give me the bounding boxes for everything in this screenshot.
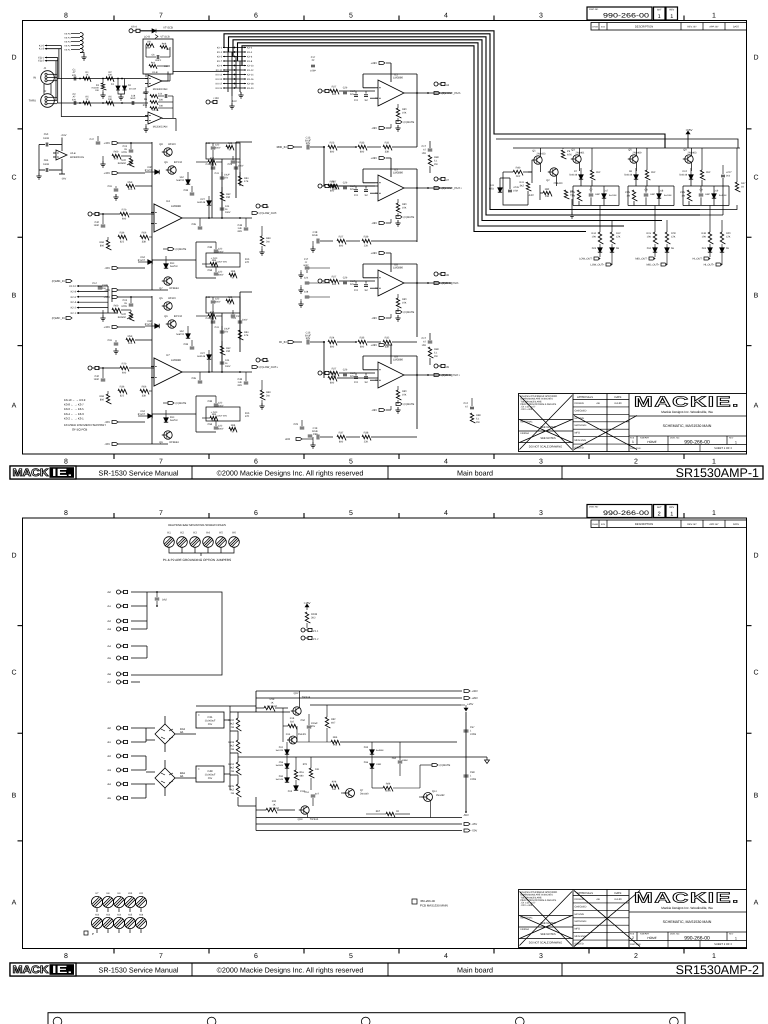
svg-text:DESCRIPTION: DESCRIPTION [635, 523, 653, 526]
resistor P2N 1W [632, 190, 637, 201]
resistor R28 800 [328, 184, 337, 189]
svg-text:R27: R27 [332, 368, 337, 371]
diode D36 100R [370, 764, 374, 768]
capacitor C41 U7 [220, 331, 225, 333]
svg-text:U7: U7 [166, 354, 170, 357]
capacitor C2 [74, 101, 76, 105]
svg-text:D52: D52 [141, 410, 146, 413]
drawing number strip 990-266-00 [587, 505, 678, 518]
svg-text:800: 800 [330, 190, 335, 193]
svg-text:2: 2 [634, 953, 638, 960]
svg-text:2: 2 [632, 936, 634, 940]
svg-text:C14: C14 [158, 93, 163, 96]
svg-text:1K: 1K [86, 98, 89, 101]
svg-text:Q6: Q6 [164, 161, 168, 164]
capacitor C44 U7 [220, 362, 225, 364]
svg-text:R66: R66 [228, 142, 233, 145]
svg-text:100V: 100V [242, 319, 248, 322]
svg-text:3: 3 [539, 953, 543, 960]
capacitor C31 U7 [114, 343, 119, 345]
svg-text:1W: 1W [230, 792, 234, 795]
svg-text:12K: 12K [616, 235, 621, 238]
svg-text:100M: 100M [470, 778, 476, 781]
title block notes cell [519, 891, 574, 944]
svg-text:(C)FRNT_OUT-: (C)FRNT_OUT- [442, 91, 462, 95]
svg-text:D31: D31 [279, 746, 284, 749]
svg-text:HEATSINK BAR MOUNTING SCREW HO: HEATSINK BAR MOUNTING SCREW HOLES [168, 523, 226, 527]
plug J54 [117, 644, 128, 648]
transistor Q9 2N4403 [683, 155, 693, 163]
labels H7-H11 [96, 892, 144, 895]
svg-text:KX-18: KX-18 [247, 82, 254, 85]
transistor Qm IRF232 U7 [166, 320, 176, 328]
svg-text:63V: 63V [72, 74, 77, 77]
svg-text:2W FUSE: 2W FUSE [267, 705, 278, 708]
net (C)FRNT_OUT+ [434, 187, 440, 190]
svg-text:800: 800 [360, 151, 365, 154]
diode D25 5e4148 [598, 248, 602, 252]
inductor ladder K5 jumpers [71, 33, 84, 55]
svg-text:KX-9: KX-9 [217, 64, 223, 67]
page3 screw circle 4 [516, 1017, 525, 1024]
page3 screw circle 1 [53, 1017, 62, 1024]
resistor R97 1R [386, 812, 395, 817]
svg-text:K3-10 ← → K3-9: K3-10 ← → K3-9 [64, 398, 86, 402]
screw hole H12 [91, 917, 102, 928]
svg-text:5: 5 [349, 459, 353, 466]
title block outline [519, 890, 747, 948]
svg-text:P: P [92, 932, 94, 936]
svg-text:330P: 330P [350, 372, 356, 375]
svg-text:C22: C22 [218, 271, 223, 274]
svg-text:C42: C42 [206, 317, 211, 320]
svg-text:600V: 600V [215, 147, 221, 150]
svg-text:J6: J6 [266, 206, 269, 209]
svg-text:Q5: Q5 [159, 297, 163, 300]
svg-text:MACKIE.: MACKIE. [634, 891, 740, 907]
resistor R24 800 [328, 340, 337, 345]
wire CA7 column [236, 142, 252, 198]
capacitor Cc U8 [364, 285, 368, 287]
wire feedback U3 [363, 74, 417, 93]
plug J7 [434, 177, 445, 181]
capacitor C48 10000uF [196, 766, 224, 782]
svg-text:R38: R38 [364, 432, 369, 435]
svg-text:C22: C22 [218, 402, 223, 405]
svg-text:H9: H9 [118, 892, 122, 895]
svg-text:(C)MIC_IN: (C)MIC_IN [52, 317, 65, 320]
resistor R37 [337, 435, 346, 440]
capacitor C42 U4 [211, 167, 216, 169]
svg-text:KX-15: KX-15 [216, 78, 223, 81]
diode D10 5e4148 [653, 248, 657, 252]
wire output U7 [182, 371, 252, 373]
ground K5 ladder [81, 54, 86, 60]
svg-text:10K: 10K [402, 111, 407, 114]
plug J64 [117, 782, 128, 786]
svg-text:LM3886: LM3886 [393, 267, 403, 270]
svg-text:9e4148: 9e4148 [197, 355, 205, 358]
svg-text:D17: D17 [604, 190, 609, 193]
svg-text:+16V: +16V [213, 97, 219, 100]
svg-text:J53: J53 [107, 628, 112, 631]
svg-text:10K: 10K [108, 74, 113, 77]
transistor Q12 TIP32A [291, 707, 301, 715]
ground U5 [395, 220, 400, 226]
svg-text:C56: C56 [279, 761, 284, 764]
svg-text:1K5: 1K5 [128, 188, 133, 191]
svg-text:R15: R15 [245, 412, 250, 415]
resistor R34 U4 [238, 176, 243, 186]
capacitor C45 amp [508, 190, 512, 192]
svg-text:R66: R66 [228, 296, 233, 299]
svg-text:50V: 50V [350, 375, 355, 378]
svg-text:(C)MUTE: (C)MUTE [176, 248, 187, 251]
bridge rectifier D34 [155, 724, 185, 744]
svg-text:C18: C18 [131, 95, 136, 98]
svg-text:1: 1 [632, 440, 634, 444]
plug J8 [434, 272, 445, 276]
wire bridge B3A [146, 760, 196, 796]
wire input row [57, 78, 148, 80]
capacitor C47 topline [96, 142, 101, 144]
svg-text:.XXX ±.005: .XXX ±.005 [521, 904, 533, 907]
svg-text:D: D [753, 55, 758, 62]
zone division ticks [114, 16, 684, 460]
diode D18 5e4148 [657, 194, 661, 198]
svg-text:10K: 10K [592, 235, 597, 238]
svg-text:(C)LOW_OUT-: (C)LOW_OUT- [260, 212, 278, 215]
svg-text:HI_OUT+: HI_OUT+ [704, 264, 715, 267]
svg-text:C21: C21 [354, 194, 359, 197]
resistor R7B 100 [330, 784, 339, 789]
svg-text:KX-12: KX-12 [247, 69, 254, 72]
svg-text:SEE NOTES: SEE NOTES [540, 933, 556, 936]
svg-text:H2: H2 [180, 532, 184, 535]
svg-text:600: 600 [122, 218, 127, 221]
svg-text:C33: C33 [184, 189, 189, 192]
svg-text:3: 3 [539, 459, 543, 466]
wire psu rail top1 [256, 690, 462, 692]
svg-text:230: 230 [226, 196, 231, 199]
svg-text:C22: C22 [218, 248, 223, 251]
svg-text:KX-3: KX-3 [217, 51, 223, 54]
drawing number strip 990-266-00 [587, 7, 678, 20]
svg-text:DATE: DATE [615, 892, 622, 895]
wire amp left loop [500, 160, 543, 205]
svg-text:D36: D36 [364, 761, 369, 764]
svg-text:180P: 180P [705, 193, 711, 196]
svg-text:3: 3 [539, 13, 543, 20]
resistor R47 1K [735, 182, 740, 192]
net MID_IN left [66, 280, 72, 283]
svg-text:AB: AB [596, 402, 600, 405]
resistor Rin U9 [330, 371, 339, 376]
svg-text:A7: A7 [73, 71, 77, 74]
svg-text:MFG: MFG [575, 432, 581, 435]
net HI_IN [288, 341, 294, 344]
svg-text:TOLERANCES ARE:: TOLERANCES ARE: [521, 896, 543, 899]
wire block bottom U4 [152, 242, 216, 278]
svg-text:1M: 1M [364, 381, 367, 384]
svg-text:KX-11: KX-11 [216, 69, 223, 72]
svg-text:5: 5 [349, 510, 353, 517]
plug J6 U7 [256, 358, 267, 362]
diode D31 5e4743 [285, 750, 289, 754]
svg-text:R64: R64 [212, 259, 217, 262]
svg-text:K2-6: K2-6 [71, 296, 77, 299]
svg-text:R53: R53 [128, 181, 133, 184]
capacitor Cin U4 [101, 225, 106, 227]
svg-text:MID_OUT-: MID_OUT- [635, 258, 647, 261]
svg-text:R53: R53 [128, 335, 133, 338]
svg-text:-16V: -16V [61, 178, 67, 181]
svg-text:10K: 10K [402, 206, 407, 209]
title block name plate [629, 891, 747, 948]
svg-text:C31: C31 [108, 185, 113, 188]
resistor R45 2K2 [700, 170, 705, 180]
svg-text:3K2: 3K2 [520, 184, 525, 187]
svg-text:KX-8: KX-8 [247, 60, 253, 63]
svg-text:J65: J65 [107, 797, 112, 800]
svg-text:D18: D18 [659, 190, 664, 193]
svg-text:C38: C38 [208, 246, 213, 249]
svg-text:C17: C17 [304, 258, 309, 261]
svg-text:VT-SCB: VT-SCB [160, 36, 169, 39]
svg-text:B: B [754, 793, 759, 800]
resistor R6B 3K3 [160, 46, 168, 50]
capacitor C50 220uF [307, 726, 312, 728]
svg-text:1M: 1M [364, 289, 367, 292]
svg-text:100V: 100V [218, 251, 224, 254]
svg-text:100E: 100E [94, 224, 100, 227]
svg-text:EQ-2: EQ-2 [38, 60, 44, 63]
svg-text:MACK: MACK [13, 964, 49, 976]
svg-text:R28: R28 [330, 181, 335, 184]
svg-text:100V: 100V [225, 365, 231, 368]
resistor R13 fuse [264, 706, 275, 711]
svg-text:800: 800 [330, 151, 335, 154]
svg-text:D35: D35 [364, 746, 369, 749]
svg-text:5e4148: 5e4148 [609, 194, 617, 197]
svg-text:FINISH:: FINISH: [521, 928, 530, 931]
screw hole H1 [164, 537, 175, 548]
svg-text:K5-A4: K5-A4 [64, 37, 71, 40]
svg-text:FRACTIONS DECIMALS ANGLES: FRACTIONS DECIMALS ANGLES [521, 899, 557, 902]
svg-text:R56: R56 [142, 232, 147, 235]
svg-text:1K: 1K [86, 74, 89, 77]
capacitor Cb U3 [354, 95, 358, 97]
svg-text:U2-B: U2-B [70, 152, 76, 155]
MACKIE footer logo [10, 963, 76, 976]
svg-text:RANGE: RANGE [118, 316, 127, 319]
svg-text:330P: 330P [350, 280, 356, 283]
capacitor C9 180P [699, 194, 704, 196]
svg-text:TIP32A: TIP32A [302, 696, 311, 699]
svg-text:BYV27: BYV27 [138, 259, 146, 262]
wire channel MID_OUT bottom [628, 186, 674, 206]
svg-text:DO NOT SCALE DRAWING: DO NOT SCALE DRAWING [529, 942, 562, 945]
diode C56 5e4948 [285, 764, 289, 768]
svg-text:LM3886: LM3886 [393, 359, 403, 362]
svg-text:D12: D12 [683, 170, 688, 173]
svg-text:R60: R60 [114, 305, 119, 308]
svg-text:(C)MUTE: (C)MUTE [176, 402, 187, 405]
capacitor C43 U7 [231, 315, 236, 317]
net -25V psu [464, 823, 470, 826]
svg-text:5e4743: 5e4743 [276, 749, 284, 752]
svg-text:1: 1 [712, 13, 716, 20]
svg-text:500: 500 [332, 93, 337, 96]
svg-text:VT-SCB: VT-SCB [163, 27, 173, 30]
svg-text:THRU: THRU [29, 100, 36, 103]
resistor R4A 25K [146, 44, 154, 48]
diode D17 5e4148 [602, 194, 606, 198]
capacitor C29 [300, 427, 305, 429]
svg-text:C44: C44 [225, 359, 230, 362]
capacitor C15 [307, 340, 309, 345]
svg-text:SR-1530 Service Manual: SR-1530 Service Manual [99, 966, 179, 975]
diode D35 5e4948 [370, 750, 374, 754]
resistor R43 2K2 [645, 170, 650, 180]
svg-text:R27: R27 [332, 276, 337, 279]
wire psu rail top3 [310, 704, 461, 706]
wire amp right [700, 178, 737, 215]
svg-text:1: 1 [670, 512, 673, 518]
svg-text:+15V: +15V [467, 703, 474, 706]
svg-text:K5-A1: K5-A1 [64, 49, 71, 52]
svg-text:CA7: CA7 [92, 282, 97, 285]
capacitor Cc U5 [364, 190, 368, 192]
svg-text:+29V: +29V [472, 697, 479, 700]
svg-text:230: 230 [226, 350, 231, 353]
svg-text:47: 47 [229, 302, 232, 305]
svg-text:1W: 1W [626, 194, 630, 197]
svg-text:100V: 100V [238, 165, 244, 168]
pot P9 A7K [561, 150, 566, 159]
capacitor C57 100M [464, 730, 469, 732]
svg-text:C1: C1 [72, 68, 76, 71]
svg-text:SEE NOTES: SEE NOTES [540, 437, 556, 440]
transistor Q5 2N4409 [628, 155, 638, 163]
svg-text:R65: R65 [333, 736, 338, 739]
input plug U9 [318, 371, 329, 375]
resistor R30 U9 [396, 390, 401, 400]
svg-text:A7: A7 [465, 405, 469, 408]
svg-text:DWG NO: DWG NO [589, 8, 599, 11]
transistor Qm IRF232 U4 [166, 166, 176, 174]
node EQ stub wires [38, 57, 57, 63]
svg-text:D15: D15 [288, 790, 293, 793]
resistor R66b U7 [229, 427, 237, 432]
screw hole H14 [113, 917, 124, 928]
svg-text:(C)MUTE: (C)MUTE [404, 216, 415, 219]
resistor R9 22K [150, 101, 158, 105]
svg-text:C58: C58 [208, 423, 213, 426]
svg-text:J51: J51 [107, 605, 112, 608]
svg-text:7: 7 [159, 459, 163, 466]
svg-text:R17: R17 [143, 92, 148, 95]
svg-text:5: 5 [349, 13, 353, 20]
net (C)LOW_OUT+ U7 [252, 366, 258, 369]
svg-text:H11: H11 [139, 892, 144, 895]
svg-text:Main board: Main board [457, 966, 493, 975]
resistor R interblock [428, 347, 433, 358]
svg-text:D24: D24 [702, 247, 707, 250]
svg-text:-30V: -30V [104, 443, 110, 446]
XLR jack J2 THRU [29, 90, 57, 107]
svg-text:1W: 1W [230, 726, 234, 729]
svg-text:C65: C65 [44, 159, 49, 162]
screw hole H15 [124, 917, 135, 928]
svg-text:2N4413: 2N4413 [537, 153, 547, 156]
svg-text:-25V: -25V [472, 823, 478, 826]
svg-text:C51: C51 [305, 791, 310, 794]
svg-text:10K: 10K [164, 65, 169, 68]
wire U1 output [173, 71, 229, 73]
svg-text:FRACTIONS DECIMALS ANGLES: FRACTIONS DECIMALS ANGLES [521, 403, 557, 406]
svg-text:C41: C41 [215, 172, 220, 175]
resistor P3N 1W [687, 190, 692, 201]
svg-text:8: 8 [64, 510, 68, 517]
wire channel LOW_OUT top [573, 179, 619, 186]
svg-text:800: 800 [330, 346, 335, 349]
svg-text:C50: C50 [301, 719, 306, 722]
svg-text:Q14: Q14 [432, 790, 437, 793]
net MUTE U4 [168, 248, 174, 251]
capacitor Ca U9 [343, 374, 347, 376]
svg-text:BYV27: BYV27 [145, 323, 153, 326]
capacitor C19 U7 [129, 304, 134, 306]
svg-text:H3: H3 [193, 532, 197, 535]
svg-text:5e6742: 5e6742 [176, 179, 184, 182]
svg-text:KX-16: KX-16 [247, 78, 254, 81]
svg-text:R99: R99 [386, 783, 391, 786]
svg-text:1M: 1M [364, 99, 367, 102]
plug J65 [117, 796, 128, 800]
resistor R34 U7 [238, 330, 243, 340]
resistor R20 [720, 232, 725, 244]
svg-text:500: 500 [332, 283, 337, 286]
ground U9 [395, 407, 400, 413]
svg-text:C40: C40 [95, 221, 100, 224]
svg-text:C44: C44 [225, 205, 230, 208]
svg-text:D19: D19 [714, 190, 719, 193]
svg-text:TIP32A: TIP32A [310, 818, 319, 821]
net +30V U4 [112, 142, 118, 145]
svg-text:10K: 10K [402, 393, 407, 396]
svg-text:KX-17: KX-17 [216, 82, 223, 85]
diode D8 5e4148b [610, 248, 614, 252]
svg-text:CHNG: CHNG [592, 26, 598, 29]
svg-text:REV: REV [669, 9, 674, 12]
svg-text:D27: D27 [201, 198, 206, 201]
capacitor C23 [234, 167, 239, 169]
resistor R30 U8 [396, 298, 401, 308]
svg-text:33K: 33K [142, 241, 147, 244]
svg-text:SHEET 2 OF 3: SHEET 2 OF 3 [714, 943, 732, 946]
resistor R40 2K2 [513, 170, 523, 175]
fiducial P mark [84, 931, 88, 935]
wire channel LOW_OUT bottom [573, 186, 619, 206]
svg-text:OF EQ PCB: OF EQ PCB [72, 428, 87, 432]
labels K5 pins [64, 33, 71, 52]
diode D30 BYV27 U4 [155, 170, 159, 174]
svg-text:J61: J61 [107, 741, 112, 744]
component box2 U4 [206, 253, 240, 267]
svg-text:SR1530AMP-2: SR1530AMP-2 [676, 963, 759, 977]
svg-text:100M: 100M [43, 137, 49, 140]
